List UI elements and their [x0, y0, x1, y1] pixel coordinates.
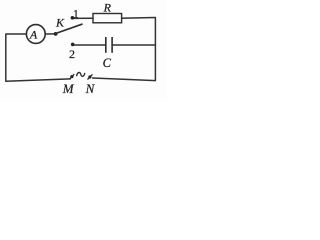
- wire contact 2 to capacitor: [73, 44, 106, 46]
- wire capacitor to right vertical: [112, 44, 155, 46]
- ammeter A1 circle: [26, 25, 45, 44]
- wire ammeter to switch pivot: [45, 33, 55, 35]
- wire left loop: ammeter lead, left vertical, bottom-left run: [6, 34, 70, 81]
- switch K pivot dot: [54, 32, 58, 36]
- wire top: contact 1 to resistor: [72, 17, 93, 19]
- svg-text:C: C: [103, 56, 112, 70]
- capacitor C plates: [106, 37, 112, 53]
- svg-text:1: 1: [73, 8, 79, 20]
- svg-text:K: K: [55, 16, 65, 30]
- switch K blade: [56, 24, 82, 33]
- svg-text:N: N: [85, 81, 96, 96]
- terminal N: slash and dot: [88, 74, 93, 79]
- AC source tilde between M and N: [77, 72, 85, 76]
- contact 1 dot: [71, 16, 75, 20]
- svg-text:2: 2: [69, 47, 75, 61]
- svg-text:R: R: [103, 0, 112, 14]
- resistor R box: [93, 14, 122, 23]
- terminal M: slash and dot: [69, 74, 74, 79]
- svg-text:A: A: [29, 27, 38, 41]
- contact 2 dot: [71, 43, 75, 47]
- svg-text:M: M: [62, 81, 75, 96]
- wire resistor to right vertical and down, bottom-right run: [93, 18, 156, 81]
